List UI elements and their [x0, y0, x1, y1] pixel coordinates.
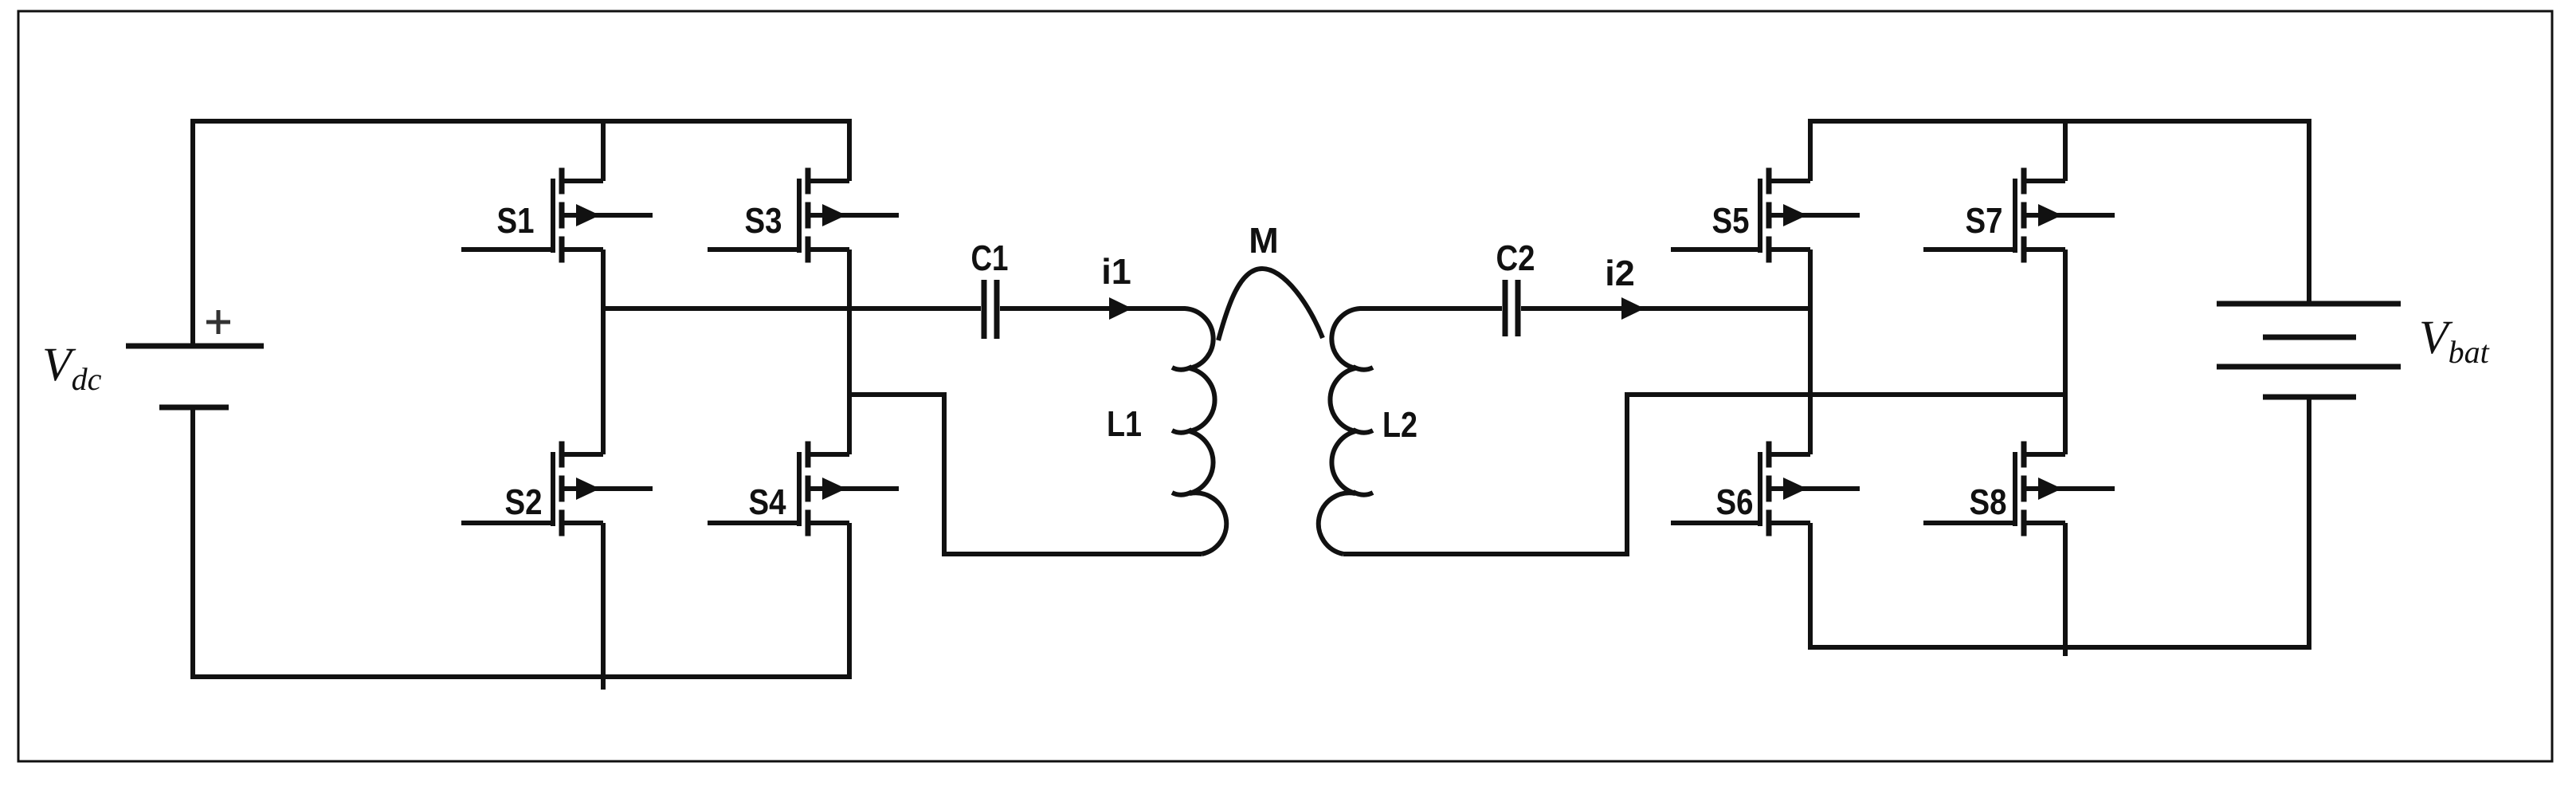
inductor L1	[1171, 309, 1226, 554]
wire: S1 source / S2 drain midpoint vertical	[601, 250, 606, 454]
transistor S3	[708, 168, 899, 263]
transistor S2	[461, 442, 653, 536]
wire: C1 to L1	[1000, 306, 1171, 311]
wire: S6 source to bottom rail	[1808, 523, 1813, 647]
battery Vbat plate 3 (long)	[2217, 364, 2401, 370]
wire: C2 to S5/S6 midpoint	[1521, 306, 1810, 311]
wire: Vdc negative terminal down and along bottom-left rail	[193, 407, 852, 677]
transistor S7	[1923, 168, 2115, 263]
battery Vbat plate 4 (short)	[2263, 395, 2356, 400]
wire: S7 source / S8 drain midpoint vertical	[2063, 250, 2068, 454]
wire: S3 source / S4 drain midpoint vertical	[847, 250, 852, 454]
svg-text:S1: S1	[497, 200, 535, 241]
wire: S7 drain to top rail	[2063, 121, 2068, 181]
wire: S3 drain to top rail	[847, 121, 852, 181]
wire: S2 source down past bottom rail	[601, 523, 606, 690]
wire: S5 drain to top rail	[1808, 121, 1813, 181]
battery Vdc negative plate	[159, 405, 229, 411]
svg-text:i1: i1	[1101, 251, 1131, 292]
wire: S1/S2 midpoint output rail to C1	[603, 306, 981, 311]
transistor S5	[1671, 168, 1860, 263]
svg-text:L2: L2	[1382, 404, 1417, 445]
svg-text:S4: S4	[749, 481, 786, 522]
wire: Vbat negative lead and right bottom rail	[1808, 397, 2309, 647]
svg-text:i2: i2	[1605, 253, 1635, 293]
capacitor C1	[984, 280, 997, 339]
svg-text:L1: L1	[1107, 403, 1142, 444]
svg-text:S6: S6	[1716, 481, 1754, 522]
battery Vdc positive plate	[126, 344, 264, 349]
wire: S1 drain to top rail	[601, 121, 606, 181]
capacitor C2	[1505, 280, 1518, 336]
transistor S8	[1923, 442, 2115, 536]
svg-text:S3: S3	[745, 200, 782, 241]
wire: right top rail to Vbat	[1808, 121, 2309, 304]
svg-text:M: M	[1249, 220, 1279, 261]
wire: L2 bottom to S7/S8 midpoint	[1343, 395, 2065, 554]
inductor L2	[1319, 309, 1373, 554]
battery Vbat plate 1 (long)	[2217, 301, 2401, 307]
transistor S1	[461, 168, 653, 263]
mutual inductance arc M	[1218, 269, 1323, 340]
svg-text:C1: C1	[971, 238, 1009, 278]
wire: S5 source / S6 drain midpoint vertical	[1808, 250, 1813, 454]
current arrow i2	[1621, 297, 1645, 320]
wire: L1 bottom to S3/S4 midpoint	[849, 395, 1202, 554]
wire: S8 source down past bottom rail	[2063, 523, 2068, 656]
svg-text:S7: S7	[1966, 200, 2003, 241]
plus sign at Vdc	[206, 310, 230, 334]
svg-text:S8: S8	[1970, 481, 2007, 522]
current arrow i1	[1109, 297, 1132, 320]
svg-text:C2: C2	[1496, 238, 1535, 278]
svg-text:S5: S5	[1712, 200, 1750, 241]
battery Vbat plate 2 (short)	[2263, 335, 2356, 340]
wire: Vdc positive terminal up to top-left rail and along top rail	[193, 121, 852, 346]
svg-text:S2: S2	[505, 481, 543, 522]
wire: L2 top to C2	[1370, 306, 1502, 311]
transistor S4	[708, 442, 899, 536]
transistor S6	[1671, 442, 1860, 536]
wire: S4 source down to bottom rail	[847, 523, 852, 677]
